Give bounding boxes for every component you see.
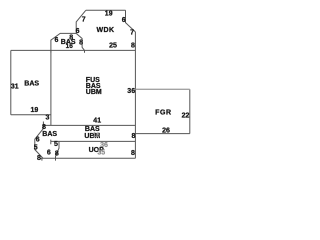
svg-text:6: 6: [55, 37, 59, 44]
svg-text:UBM: UBM: [86, 89, 102, 96]
svg-text:16: 16: [66, 43, 74, 50]
wall: top edge of left box + main building (deck/bump bottom): [11, 49, 136, 51]
wall: bottom edge of UOP strip: [40, 157, 135, 159]
svg-text:8: 8: [131, 43, 135, 50]
svg-text:5: 5: [34, 144, 38, 151]
svg-text:25: 25: [109, 42, 117, 49]
wall: rear strip mid line with end tick: [51, 140, 136, 145]
svg-text:19: 19: [31, 107, 39, 114]
wall: left box bottom edge: [11, 114, 51, 116]
svg-text:BAS: BAS: [24, 80, 39, 87]
svg-text:35: 35: [97, 150, 105, 157]
svg-text:FGR: FGR: [155, 109, 172, 116]
svg-text:6: 6: [36, 137, 40, 144]
svg-text:22: 22: [182, 112, 190, 119]
wall: garage right edge: [189, 89, 191, 133]
wall: garage top edge (gray): [135, 88, 189, 90]
svg-text:36: 36: [100, 142, 108, 149]
svg-text:26: 26: [162, 127, 170, 134]
wall: shared vertical: main left edge / box right edge / 3ft jog: [50, 50, 52, 125]
svg-text:8: 8: [131, 133, 135, 140]
tick: bay bottom corner ticks: [42, 158, 56, 160]
wall: main bottom edge (41): [43, 124, 135, 126]
svg-text:WDK: WDK: [97, 27, 115, 34]
svg-text:5: 5: [54, 141, 58, 148]
svg-text:31: 31: [11, 84, 19, 91]
wall: building right edge: [134, 32, 136, 158]
wall: garage bottom edge: [135, 133, 189, 135]
svg-text:41: 41: [93, 117, 101, 124]
svg-text:8: 8: [55, 150, 59, 157]
wall: left box left edge: [10, 50, 12, 114]
tick: bump bottom corners: [50, 50, 52, 52]
svg-text:3: 3: [45, 114, 49, 121]
svg-text:19: 19: [105, 11, 113, 18]
svg-text:7: 7: [130, 29, 134, 36]
wall: deck top edge: [86, 9, 126, 11]
wall: bay right return zigzag: [56, 141, 60, 158]
svg-text:36: 36: [127, 88, 135, 95]
wall: bay window left side: [35, 122, 44, 159]
svg-text:6: 6: [122, 17, 126, 24]
svg-text:16: 16: [93, 132, 101, 139]
svg-text:BAS: BAS: [42, 131, 57, 138]
svg-text:6: 6: [76, 28, 80, 35]
svg-text:7: 7: [82, 16, 86, 23]
svg-text:8: 8: [79, 40, 83, 47]
wall: deck right corner vertical + diagonal: [126, 10, 136, 32]
wall: top bump left vertical and diagonal and top edge: [51, 33, 76, 50]
svg-text:8: 8: [131, 150, 135, 157]
svg-text:8: 8: [37, 155, 41, 162]
wall: deck left boundary zigzag: [76, 10, 86, 52]
svg-text:6: 6: [47, 149, 51, 156]
